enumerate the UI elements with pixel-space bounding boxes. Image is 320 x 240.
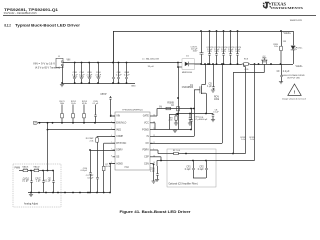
resistor RF1 — [171, 153, 174, 155]
resistor RADJ1 — [19, 170, 23, 172]
wire GATE loop — [153, 115, 158, 117]
svg-text:PDRV: PDRV — [142, 150, 149, 152]
svg-text:8: 8 — [111, 155, 112, 157]
svg-text:DDRV: DDRV — [116, 150, 123, 152]
resistor RUV3 — [83, 122, 85, 124]
wire gate riser — [194, 90, 196, 137]
capacitor COUT6 — [237, 30, 239, 32]
svg-text:100V: 100V — [96, 76, 101, 78]
pin OV — [150, 142, 153, 144]
svg-text:IADJ: IADJ — [116, 128, 121, 131]
capacitor COUT1 electrolytic — [200, 30, 202, 32]
wire VCC loop — [153, 122, 156, 124]
svg-text:VIN: VIN — [116, 116, 120, 118]
capacitor CSS — [89, 149, 91, 151]
transistor Q2 dimming FET — [250, 64, 293, 66]
capacitor CIN3 — [88, 62, 90, 64]
svg-text:1.0k: 1.0k — [241, 139, 245, 141]
svg-text:VIN: VIN — [67, 59, 71, 61]
svg-text:PAD: PAD — [125, 166, 130, 169]
capacitor CIN2 — [81, 62, 83, 64]
wire Q2 gate run to PDRV — [263, 64, 265, 73]
svg-text:SS: SS — [116, 157, 120, 159]
wire IS run to gate riser — [153, 136, 195, 138]
svg-text:Analog Adjust: Analog Adjust — [24, 202, 38, 205]
capacitor CF3 — [53, 171, 55, 181]
svg-text:Danger: please do not touch: Danger: please do not touch — [282, 98, 306, 101]
ground CF — [279, 81, 283, 83]
svg-text:OV: OV — [145, 143, 149, 145]
svg-text:L1 XAL1060-333: L1 XAL1060-333 — [142, 58, 159, 61]
svg-text:0.1 µF: 0.1 µF — [93, 103, 99, 105]
svg-text:100V: 100V — [221, 51, 226, 53]
pin VCC — [150, 122, 153, 124]
svg-text:100V: 100V — [193, 51, 198, 53]
svg-text:(4.5 V to 65 V Transient): (4.5 V to 65 V Transient) — [35, 67, 60, 70]
svg-text:VLED+: VLED+ — [284, 33, 292, 35]
svg-text:10.0k: 10.0k — [23, 169, 28, 171]
svg-text:TPS92691, TPS92691-Q1: TPS92691, TPS92691-Q1 — [4, 8, 58, 12]
svg-text:1.0k: 1.0k — [250, 139, 254, 141]
pin PGND — [150, 129, 153, 131]
resistor RSNB snubber — [177, 97, 179, 99]
pin PDRV — [150, 149, 153, 151]
ground analog — [30, 193, 32, 195]
wire VLED- mid rail — [201, 64, 242, 66]
capacitor CBYP — [111, 115, 115, 117]
capacitor CBYP2 — [212, 114, 214, 115]
analog adjust box — [13, 164, 61, 207]
wire PGND rail — [176, 113, 213, 115]
svg-text:0.1 µF: 0.1 µF — [44, 181, 51, 183]
resistor RUV1 — [61, 122, 63, 124]
svg-text:100V: 100V — [214, 51, 219, 53]
svg-text:1 µF: 1 µF — [36, 181, 41, 183]
wire COMP drop — [97, 136, 115, 138]
resistor RFB bleeder — [280, 30, 282, 32]
capacitor CF1 — [193, 161, 195, 169]
ground input — [60, 84, 64, 86]
svg-text:CSN: CSN — [144, 163, 149, 165]
wire PGND stub — [153, 129, 156, 131]
svg-text:100V: 100V — [73, 76, 78, 78]
wire filter bottom — [193, 177, 206, 179]
wire CSP — [153, 149, 159, 151]
svg-text:100V: 100V — [235, 51, 240, 53]
LED string D2 — [293, 31, 295, 45]
capacitor CHF — [118, 62, 120, 64]
svg-text:100k: 100k — [60, 103, 64, 105]
svg-text:Typical Buck-Boost LED Driver: Typical Buck-Boost LED Driver — [15, 22, 80, 27]
svg-text:VIN = 9 V to 16 V: VIN = 9 V to 16 V — [33, 62, 55, 65]
header rule — [3, 15, 316, 17]
svg-text:4.7 µF: 4.7 µF — [194, 119, 201, 121]
op-amp IC U1 TPS92691 body — [115, 112, 150, 170]
svg-text:TPS92691QPWPRQ1: TPS92691QPWPRQ1 — [122, 110, 143, 112]
wire EN/UVLO run — [38, 122, 115, 124]
svg-text:1 µF: 1 µF — [207, 86, 212, 88]
svg-text:EN/UVLO: EN/UVLO — [116, 123, 126, 125]
svg-text:SNVSA62 – DECEMBER 2015: SNVSA62 – DECEMBER 2015 — [4, 12, 38, 15]
svg-text:INSTRUMENTS: INSTRUMENTS — [271, 6, 303, 10]
warning triangle — [288, 84, 301, 95]
svg-text:VIN: VIN — [34, 123, 38, 125]
resistor RCOMP — [96, 136, 98, 137]
wire riser to LED plus rail — [113, 31, 115, 63]
svg-text:CSD19506: CSD19506 — [182, 87, 194, 89]
svg-text:100k: 100k — [214, 99, 220, 101]
svg-text:VLED–: VLED– — [296, 66, 304, 68]
svg-text:1W: 1W — [283, 41, 286, 43]
svg-text:1000 pF: 1000 pF — [200, 119, 208, 121]
svg-text:8.2.2: 8.2.2 — [4, 22, 11, 27]
resistor RADJ2 — [31, 170, 34, 172]
svg-text:Figure 41. Buck-Boost LED Driv: Figure 41. Buck-Boost LED Driver — [120, 210, 192, 214]
wire IADJ — [47, 122, 49, 124]
svg-text:100V: 100V — [228, 51, 233, 53]
capacitor CDAMP — [212, 63, 214, 65]
pin IS — [150, 135, 153, 137]
svg-text:COMP: COMP — [116, 136, 123, 138]
svg-text:CBYP: CBYP — [100, 94, 107, 96]
ground CSN — [155, 179, 159, 181]
wire OV sense — [221, 63, 223, 65]
svg-text:100V: 100V — [207, 51, 212, 53]
wire input gnd rail — [62, 83, 135, 85]
wire AGND — [110, 163, 115, 165]
svg-text:LED+: LED+ — [297, 48, 303, 50]
svg-text:PGND: PGND — [142, 129, 149, 131]
resistor RCS sense — [242, 63, 244, 65]
pin CSN — [150, 163, 153, 165]
ground CBYP2 — [211, 119, 215, 121]
TI logo bug — [263, 2, 271, 9]
svg-text:0.01µF: 0.01µF — [81, 170, 88, 172]
svg-text:AGND: AGND — [116, 162, 123, 165]
capacitor CFLT — [43, 171, 45, 181]
svg-text:MBRS3100: MBRS3100 — [182, 72, 193, 74]
capacitor COUT2 — [209, 30, 211, 32]
svg-text:GATE: GATE — [143, 115, 150, 118]
svg-text:VCC: VCC — [144, 123, 149, 125]
svg-text:2.2 µF: 2.2 µF — [283, 71, 290, 73]
capacitor CF2 — [206, 161, 208, 169]
pin DDRV — [113, 149, 116, 151]
wire CSP sense riser — [245, 67, 247, 154]
svg-text:0.1µF: 0.1µF — [198, 169, 204, 171]
resistor RUV2 — [72, 122, 74, 124]
wire RT drop — [104, 142, 115, 144]
capacitor CIS — [189, 114, 191, 118]
capacitor CCOMP — [97, 160, 99, 178]
node VIN flag — [34, 121, 39, 124]
pin COMP — [113, 135, 116, 137]
pin SS — [113, 156, 116, 158]
svg-text:RCS: RCS — [244, 58, 249, 60]
svg-text:100V: 100V — [79, 76, 84, 78]
transistor Q1 main NFET — [205, 64, 207, 85]
capacitor COUT3 — [216, 30, 218, 32]
wire input gnd drop — [62, 66, 64, 83]
capacitor CIN1 — [74, 62, 76, 64]
pin AGND — [113, 163, 116, 165]
svg-text:10.0k: 10.0k — [71, 103, 76, 105]
resistor RT — [103, 143, 105, 166]
capacitor CSN bypass — [160, 160, 162, 162]
pin IADJ — [113, 129, 116, 131]
svg-text:Optional (CS Amplifier Filter): Optional (CS Amplifier Filter) — [169, 182, 198, 185]
wire AGND tail — [153, 163, 154, 165]
svg-text:CSP: CSP — [144, 157, 149, 159]
ground CDAMP — [211, 89, 215, 91]
resistor RIS — [175, 114, 177, 117]
capacitor CIN5 — [112, 82, 114, 84]
wire VIN rail — [63, 62, 178, 64]
pin RT/SYNC — [113, 142, 116, 144]
capacitor CADJ — [31, 171, 33, 181]
svg-text:PWM: PWM — [15, 167, 21, 169]
svg-text:1 nF: 1 nF — [150, 171, 155, 173]
svg-text:0.1 µF: 0.1 µF — [124, 74, 130, 76]
diode D1 — [177, 62, 179, 64]
svg-text:2.2: 2.2 — [159, 108, 162, 110]
svg-text:100V: 100V — [87, 76, 92, 78]
svg-text:49.9k: 49.9k — [82, 103, 87, 105]
capacitor CIN4 — [97, 62, 99, 64]
capacitor COUT4 — [223, 30, 225, 32]
wire LED+ top rail — [113, 31, 293, 33]
optional CS amplifier filter box — [167, 149, 216, 187]
wire CSN — [153, 156, 162, 158]
capacitor CVCC — [191, 109, 193, 120]
wire analog gnd rail — [28, 192, 110, 194]
resistor RGATE — [166, 107, 171, 110]
svg-text:OUTPUT LED: OUTPUT LED — [287, 77, 301, 79]
svg-text:11: 11 — [153, 142, 155, 144]
svg-text:GND: GND — [131, 86, 136, 88]
svg-text:0.1 µF: 0.1 µF — [116, 74, 122, 76]
svg-text:0.1µF: 0.1µF — [185, 169, 191, 171]
wire switch node drop — [178, 67, 180, 114]
svg-text:www.ti.com: www.ti.com — [290, 19, 302, 22]
wire CSN sense riser — [216, 160, 255, 162]
svg-text:0.1 µF: 0.1 µF — [22, 181, 29, 183]
pin GATE — [150, 115, 153, 117]
svg-text:0.1 µF: 0.1 µF — [213, 112, 219, 114]
svg-text:33 µH: 33 µH — [148, 66, 154, 68]
svg-text:RT/SYNC: RT/SYNC — [116, 143, 126, 145]
pin CSP — [150, 156, 153, 158]
capacitor CVIN — [94, 122, 96, 124]
wire vcc routing — [169, 115, 171, 130]
ground CVCC — [174, 129, 176, 132]
pin EN/UVLO — [113, 122, 116, 124]
svg-text:10.0k: 10.0k — [34, 169, 39, 171]
input terminal J1 — [56, 58, 63, 67]
pin VIN — [113, 115, 116, 117]
ground RIS — [174, 122, 178, 124]
svg-text:RF 10.0: RF 10.0 — [173, 150, 180, 152]
capacitor CEMI — [126, 62, 128, 64]
capacitor CF output filter — [270, 63, 272, 65]
ground AGND — [152, 180, 156, 182]
capacitor COUT5 — [230, 30, 232, 32]
